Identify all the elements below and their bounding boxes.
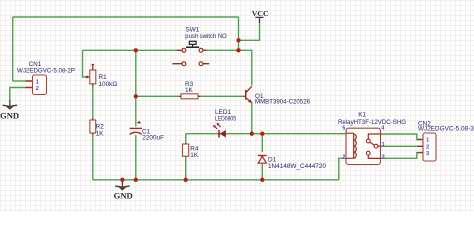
wire left vertical of outer loop	[12, 17, 14, 81]
svg-text:WJ2EDGVC-5.08-3-: WJ2EDGVC-5.08-3-	[418, 126, 474, 133]
svg-text:1: 1	[382, 142, 385, 148]
wire Q1 emitter down to LED row	[251, 102, 253, 134]
LED LED1	[213, 109, 236, 137]
junction node VCC / SW row	[236, 48, 240, 52]
junction node R3 row / C1 column	[134, 94, 138, 98]
wire R3 row left	[136, 95, 179, 97]
svg-text:MMBT3904-C20526: MMBT3904-C20526	[255, 99, 310, 106]
resistor R4	[183, 143, 199, 159]
wire ground rail	[93, 179, 339, 181]
junction node rail / C1	[134, 178, 138, 182]
wire CN1 pin 2 to GND drop	[10, 88, 26, 102]
wire relay pin 1 to CN2 pin 2	[381, 145, 419, 147]
svg-text:GND: GND	[0, 110, 19, 120]
VCC net flag	[252, 9, 269, 23]
wire relay pin 3 to CN2 pin 3	[381, 153, 419, 159]
svg-text:K1: K1	[358, 112, 366, 119]
svg-text:1: 1	[426, 138, 429, 144]
junction node LED row / D1 top	[260, 132, 264, 136]
junction node SW row / R1 column	[134, 48, 138, 52]
wire to CN1 pin 1	[13, 80, 26, 82]
wire relay pin 2 to ground rail	[339, 158, 346, 180]
svg-text:2: 2	[426, 144, 429, 150]
transistor Q1	[244, 86, 311, 105]
svg-text:2: 2	[36, 86, 39, 92]
svg-text:100kΩ: 100kΩ	[99, 81, 118, 88]
wire C1 bottom column	[135, 135, 137, 180]
wire R4 column	[185, 134, 187, 180]
wire switch row right segment	[207, 49, 239, 51]
junction node LED row / Q1 emitter	[250, 132, 254, 136]
svg-text:3: 3	[382, 154, 385, 160]
svg-text:RelayHT3F-12VDC-SHG: RelayHT3F-12VDC-SHG	[338, 119, 406, 126]
capacitor C1	[130, 121, 164, 142]
relay K1	[338, 112, 406, 165]
relay contacts	[366, 139, 370, 143]
wire LED row from R4 corner to relay pin 5	[186, 133, 346, 135]
svg-text:1K: 1K	[185, 87, 194, 94]
relay coil	[346, 133, 354, 158]
wire from VCC flag to column	[239, 23, 260, 41]
connector CN1	[17, 61, 75, 95]
wire R1 bottom to R2 top	[92, 86, 94, 119]
svg-text:2200uF: 2200uF	[142, 134, 164, 141]
connector CN2	[418, 120, 474, 161]
junction node rail / R4	[184, 178, 188, 182]
svg-text:2: 2	[342, 154, 345, 160]
svg-text:LED0805: LED0805	[215, 115, 236, 122]
svg-text:VCC: VCC	[252, 9, 269, 18]
svg-text:1K: 1K	[190, 152, 199, 159]
junction node rail / GND2	[120, 178, 124, 182]
junction node rail / D1	[260, 178, 264, 182]
svg-text:1N4148W_C444720: 1N4148W_C444720	[268, 163, 326, 170]
wire R2 bottom column	[92, 134, 94, 180]
svg-text:push switch NO: push switch NO	[185, 33, 227, 40]
wire VCC row to Q1 collector	[239, 50, 252, 85]
svg-text:5: 5	[342, 126, 345, 132]
ground GND2 (rail)	[114, 180, 133, 201]
wire switch row left segment	[83, 49, 177, 51]
svg-text:1K: 1K	[96, 130, 105, 137]
wire R3 row right to Q1 base	[200, 95, 244, 97]
resistor R3	[179, 81, 200, 99]
wire VCC column down	[238, 17, 240, 50]
ground GND1 (CN1)	[0, 100, 19, 120]
wire junction column row1 to R3 row to C1	[135, 50, 137, 126]
svg-text:1: 1	[36, 79, 39, 85]
resistor R2	[90, 118, 104, 137]
junction node VCC link	[236, 38, 240, 42]
push switch SW1	[173, 27, 227, 66]
diode D1	[258, 156, 326, 171]
svg-text:R1: R1	[99, 74, 108, 81]
svg-text:GND: GND	[114, 190, 133, 200]
wire top rail from left loop to VCC column	[13, 16, 239, 18]
wire to R1 wiper	[83, 50, 87, 77]
wire relay pin 4 to CN2 pin 1	[381, 134, 419, 140]
svg-text:3: 3	[426, 151, 429, 157]
svg-text:WJ2EDGVC-5.08-2P: WJ2EDGVC-5.08-2P	[17, 67, 75, 74]
wire D1 column	[261, 134, 263, 180]
potentiometer R1	[86, 65, 118, 89]
